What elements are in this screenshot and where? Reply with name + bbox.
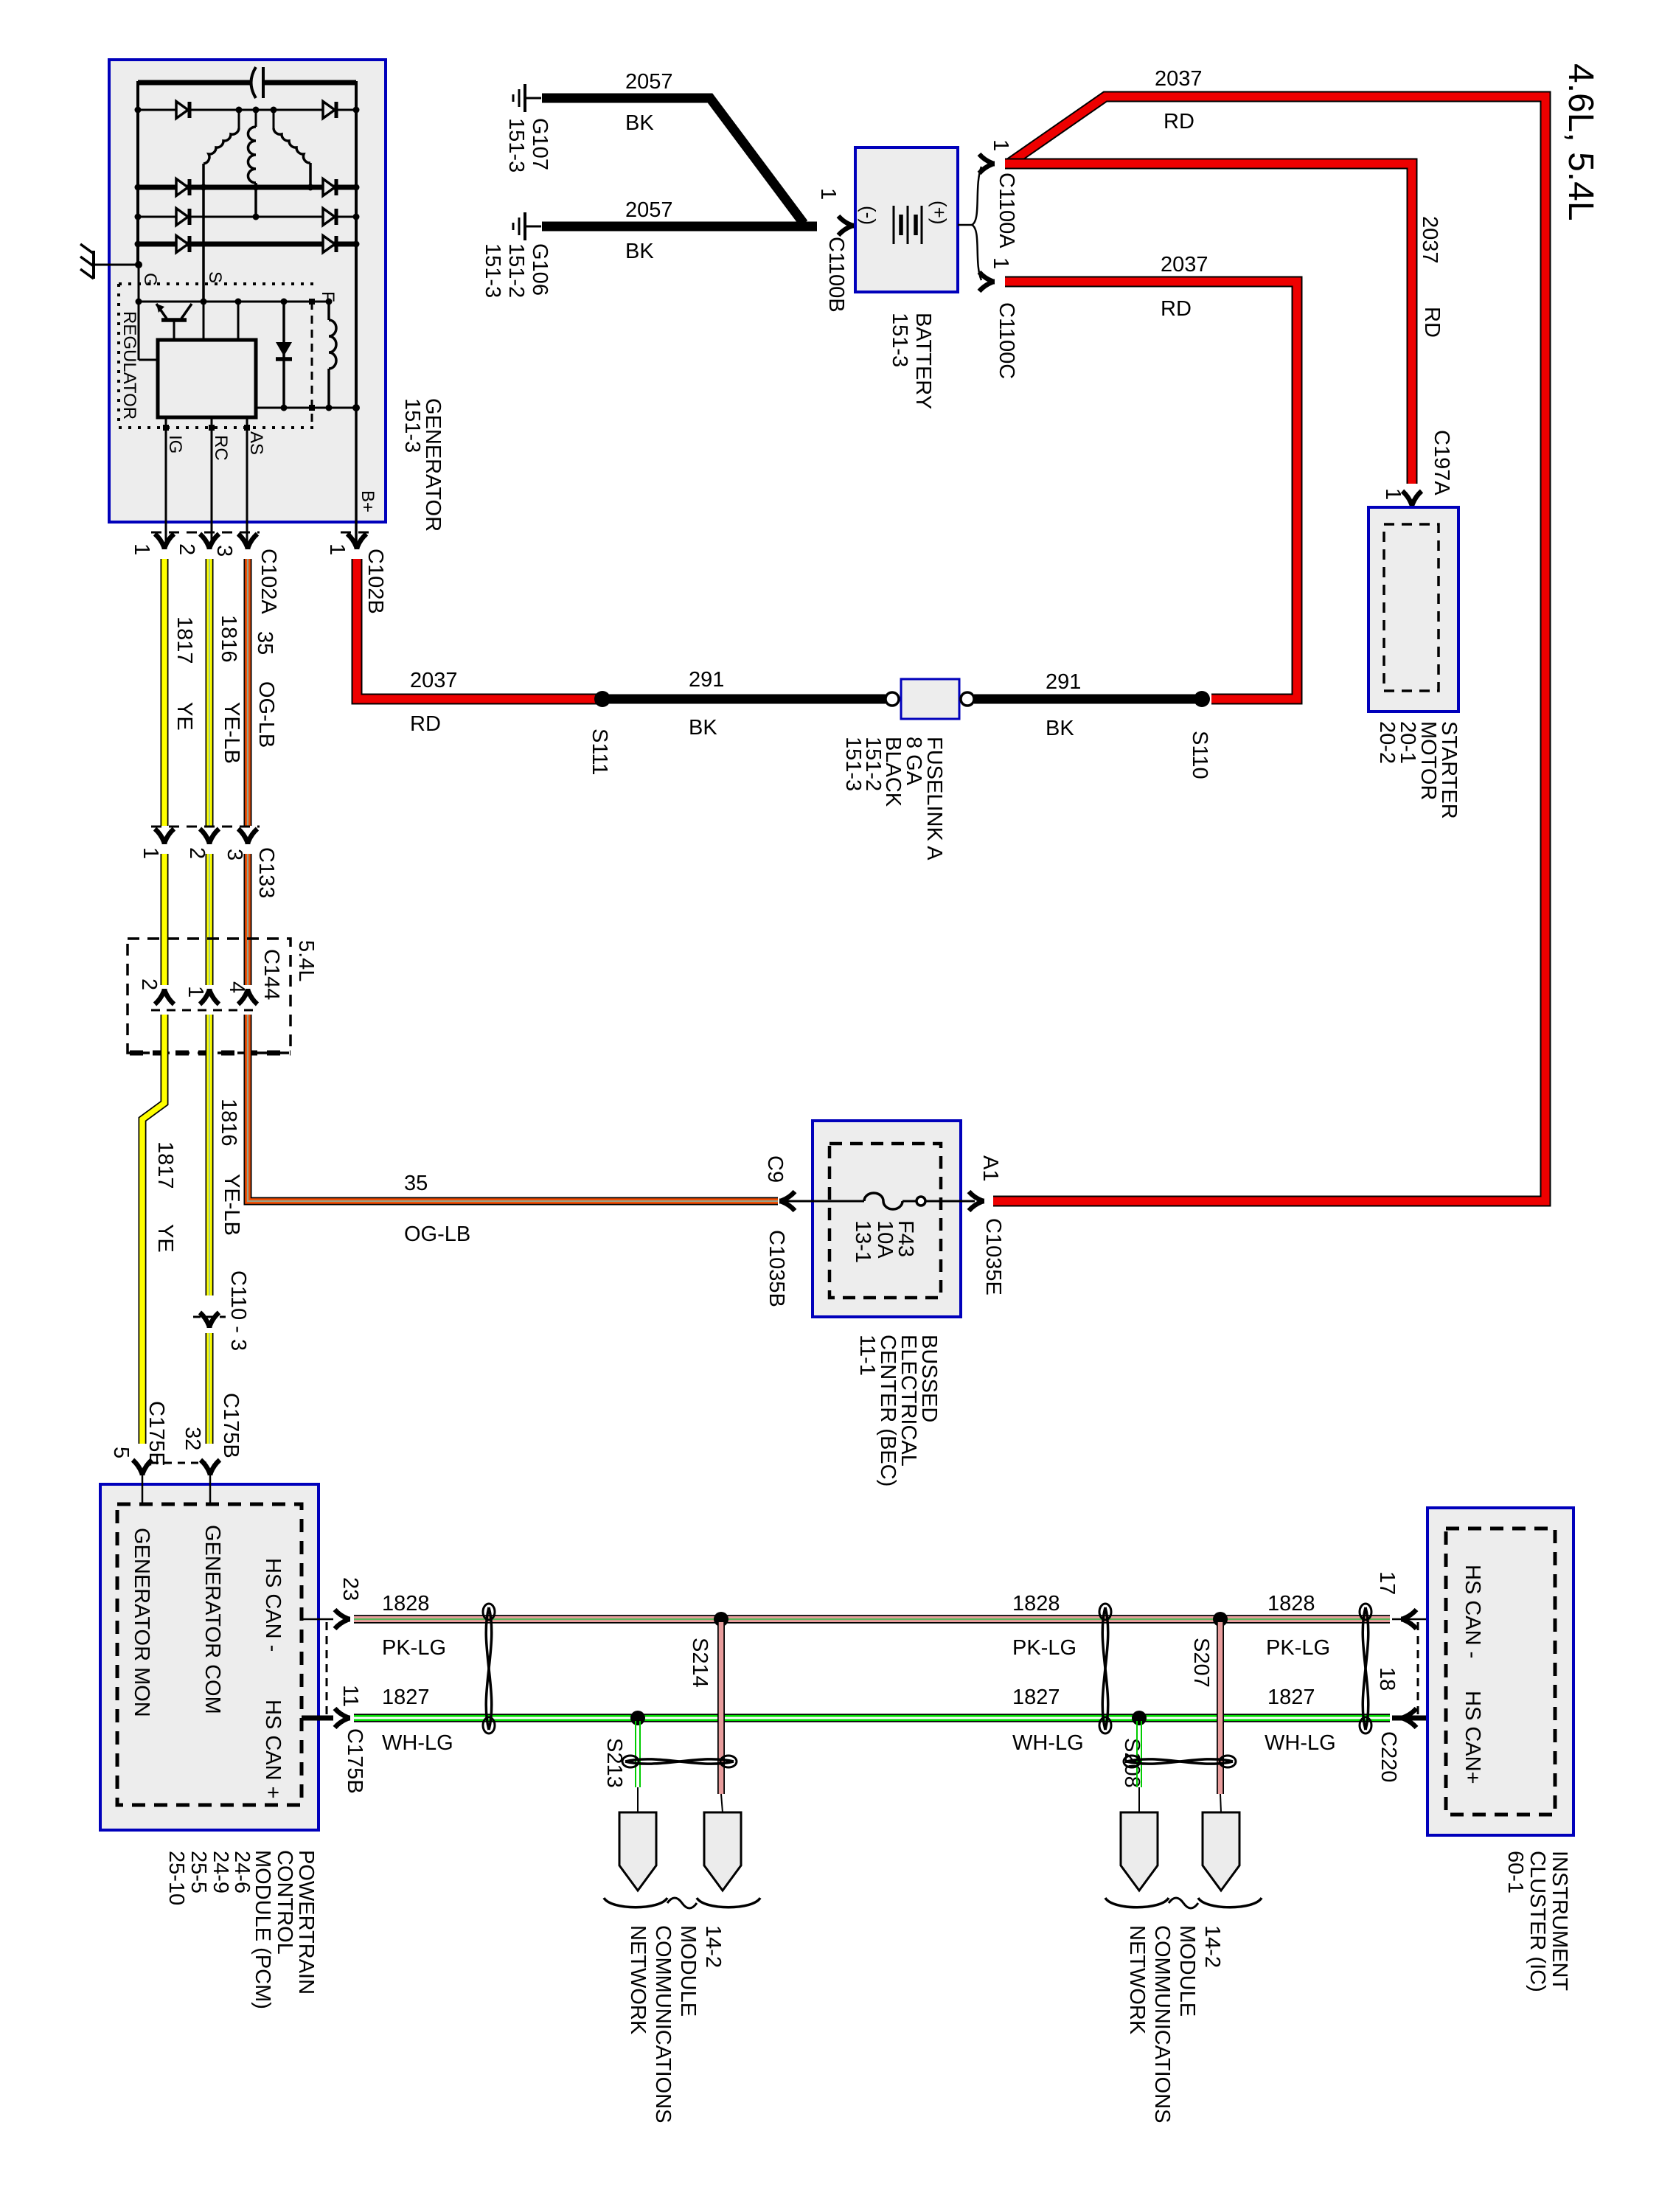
svg-text:NETWORK: NETWORK bbox=[1125, 1925, 1149, 2035]
svg-text:1828: 1828 bbox=[1012, 1592, 1060, 1615]
generator B+ top rail bbox=[138, 80, 250, 86]
row2-row3 link bbox=[254, 183, 257, 217]
diode D1 bbox=[176, 102, 188, 119]
svg-text:HS CAN+: HS CAN+ bbox=[1461, 1691, 1484, 1784]
svg-text:2037: 2037 bbox=[1418, 216, 1441, 264]
svg-text:A1: A1 bbox=[978, 1155, 1002, 1181]
BEC inner dashed box bbox=[829, 1144, 941, 1298]
transistor Q1 bbox=[156, 304, 167, 319]
svg-text:OG-LB: OG-LB bbox=[404, 1222, 470, 1246]
B+ lead bbox=[355, 409, 358, 543]
wire 1817 YE lower bbox=[142, 1015, 164, 1444]
svg-text:MODULE: MODULE bbox=[1175, 1925, 1199, 2017]
svg-text:151-2: 151-2 bbox=[504, 243, 528, 298]
svg-text:151-3: 151-3 bbox=[888, 313, 911, 367]
powertrain control module box bbox=[100, 1484, 319, 1830]
S214 drop wire bbox=[717, 1622, 725, 1794]
wire 35 OG-LB lower bbox=[248, 1015, 778, 1201]
svg-text:POWERTRAIN: POWERTRAIN bbox=[294, 1850, 318, 1994]
S213 terminal bbox=[619, 1812, 656, 1891]
splice S208 bbox=[1132, 1711, 1147, 1725]
connector C102 dashed line bbox=[151, 532, 260, 534]
svg-text:BK: BK bbox=[625, 111, 654, 135]
svg-text:C1100A: C1100A bbox=[995, 173, 1018, 248]
svg-text:25-5: 25-5 bbox=[187, 1851, 210, 1893]
RC pin lead bbox=[211, 417, 213, 543]
battery symbol bbox=[893, 206, 895, 244]
connector C1100B arrow bbox=[838, 216, 854, 235]
fuse terminal dot bbox=[917, 1197, 925, 1206]
svg-text:25-10: 25-10 bbox=[164, 1851, 188, 1905]
svg-text:B+: B+ bbox=[358, 490, 378, 512]
splice S111 bbox=[594, 691, 611, 707]
diode D3 bbox=[176, 179, 188, 196]
G wire bbox=[138, 265, 140, 360]
svg-text:WH-LG: WH-LG bbox=[1265, 1731, 1336, 1755]
5.4L dashed box bbox=[128, 939, 291, 1053]
regulator top wire bbox=[139, 301, 329, 303]
svg-text:RC: RC bbox=[211, 435, 231, 461]
PCM pin23 arrow bbox=[335, 1610, 350, 1629]
svg-text:24-9: 24-9 bbox=[209, 1851, 232, 1893]
wire 291 BK left bbox=[609, 695, 886, 704]
stator tap wires bbox=[238, 110, 240, 128]
svg-text:PK-LG: PK-LG bbox=[382, 1636, 446, 1660]
fuselink terminal circle left bbox=[886, 692, 899, 706]
diode D8 bbox=[323, 236, 335, 253]
twisted pair symbol left bbox=[486, 1607, 492, 1730]
splice S214 bbox=[714, 1612, 728, 1627]
svg-text:151-3: 151-3 bbox=[400, 398, 424, 453]
svg-text:C110 - 3: C110 - 3 bbox=[226, 1270, 250, 1351]
svg-text:(-): (-) bbox=[858, 206, 880, 225]
wire 1816 YE-LB lower2 bbox=[206, 1333, 214, 1444]
pin dots on boundary bbox=[163, 425, 169, 431]
starter motor box bbox=[1368, 507, 1458, 712]
svg-text:24-6: 24-6 bbox=[230, 1851, 254, 1893]
svg-text:BATTERY: BATTERY bbox=[911, 313, 935, 409]
connector C102 pin2 arrow bbox=[200, 534, 219, 549]
svg-text:BK: BK bbox=[625, 240, 654, 263]
svg-text:INSTRUMENT: INSTRUMENT bbox=[1548, 1851, 1571, 1991]
IC pin17 arrow bbox=[1401, 1610, 1416, 1629]
connector C133 pin3 arrow bbox=[238, 829, 257, 844]
connector C133 dashed line bbox=[151, 826, 260, 828]
fuselink A box bbox=[901, 679, 959, 719]
svg-text:2: 2 bbox=[175, 543, 198, 555]
connector C9 arrow bbox=[779, 1192, 795, 1211]
svg-text:C1100B: C1100B bbox=[824, 237, 848, 313]
svg-text:1828: 1828 bbox=[1267, 1592, 1315, 1615]
svg-text:YE-LB: YE-LB bbox=[220, 702, 243, 764]
connector C1100A arrow bbox=[979, 154, 995, 173]
S stub to regulator bbox=[203, 302, 205, 340]
svg-text:WH-LG: WH-LG bbox=[382, 1731, 453, 1755]
IC pin dashed link bbox=[1417, 1622, 1419, 1715]
svg-text:1816: 1816 bbox=[217, 1099, 240, 1147]
svg-text:C1035E: C1035E bbox=[981, 1218, 1005, 1295]
svg-text:1: 1 bbox=[816, 188, 840, 200]
connector C133 pin2 arrow bbox=[200, 829, 219, 844]
svg-text:HS CAN -: HS CAN - bbox=[261, 1558, 285, 1652]
connector C175E arrow bbox=[133, 1460, 152, 1475]
PCM pin23 stub bbox=[302, 1618, 333, 1621]
svg-text:G107: G107 bbox=[528, 118, 552, 170]
svg-text:14-2: 14-2 bbox=[701, 1925, 725, 1968]
rectifier row 1 bbox=[138, 109, 356, 111]
S208 terminal bbox=[1121, 1812, 1158, 1891]
IG pin lead bbox=[165, 417, 167, 543]
svg-text:10A: 10A bbox=[873, 1220, 897, 1259]
connector C197A arrow bbox=[1402, 491, 1422, 507]
wire 2037 RD from C102B bbox=[357, 559, 597, 699]
svg-text:151-3: 151-3 bbox=[504, 118, 528, 173]
voltage regulator IC box bbox=[158, 340, 256, 417]
wire 1816 YE-LB upper bbox=[206, 559, 214, 826]
fuse wire through BEC bbox=[780, 1200, 864, 1203]
S214 terminal bbox=[704, 1812, 741, 1891]
svg-text:291: 291 bbox=[1046, 670, 1081, 694]
svg-text:COMMUNICATIONS: COMMUNICATIONS bbox=[651, 1925, 675, 2124]
starter motor inner dashed box bbox=[1384, 524, 1439, 691]
wire 2057 BK G106 bbox=[542, 222, 817, 232]
svg-text:17: 17 bbox=[1375, 1571, 1399, 1595]
svg-text:1: 1 bbox=[989, 139, 1012, 151]
stator winding right bbox=[274, 128, 310, 163]
wire 1827 WH-LG bbox=[354, 1714, 1390, 1722]
svg-text:BK: BK bbox=[689, 716, 717, 740]
connector C144 pin2 arrow bbox=[155, 989, 174, 1004]
PCM inner dashed box bbox=[117, 1504, 302, 1805]
wire 35 OG-LB upper bbox=[244, 559, 252, 826]
wire 291 BK right bbox=[974, 695, 1203, 704]
battery stub bbox=[958, 224, 972, 226]
svg-text:32: 32 bbox=[181, 1427, 204, 1450]
IC pin18 stub bbox=[1392, 1716, 1446, 1721]
svg-text:YE: YE bbox=[173, 702, 196, 731]
svg-text:RD: RD bbox=[1164, 110, 1194, 133]
regulator bottom wire bbox=[256, 407, 356, 409]
svg-text:C102B: C102B bbox=[364, 549, 387, 614]
svg-text:AS: AS bbox=[246, 431, 266, 455]
diode D7 bbox=[176, 236, 188, 253]
svg-text:4.6L, 5.4L: 4.6L, 5.4L bbox=[1561, 63, 1600, 221]
svg-text:YE: YE bbox=[153, 1224, 177, 1253]
svg-text:2037: 2037 bbox=[410, 669, 458, 692]
C175 dashed line bbox=[151, 1462, 206, 1464]
S214 terminal stub bbox=[721, 1794, 723, 1812]
rectifier row 4 bbox=[138, 242, 356, 247]
svg-text:HS CAN -: HS CAN - bbox=[1461, 1565, 1484, 1658]
svg-text:(+): (+) bbox=[928, 201, 950, 225]
svg-text:35: 35 bbox=[404, 1172, 428, 1195]
junction dots regulator wire bbox=[136, 299, 142, 305]
svg-text:S214: S214 bbox=[688, 1638, 712, 1688]
PCM pin stubs bbox=[142, 1475, 144, 1504]
svg-text:2057: 2057 bbox=[625, 198, 673, 222]
svg-text:C197A: C197A bbox=[1430, 430, 1453, 495]
stator right lead bbox=[309, 163, 312, 187]
svg-text:5.4L: 5.4L bbox=[294, 940, 318, 981]
S213 drop wire bbox=[635, 1721, 636, 1787]
svg-text:1: 1 bbox=[130, 543, 153, 555]
connector A1 arrow bbox=[969, 1192, 984, 1211]
brace right bbox=[1105, 1898, 1169, 1907]
svg-text:S207: S207 bbox=[1189, 1638, 1213, 1688]
regulator stub 2 bbox=[237, 302, 240, 340]
wire 1816 YE-LB mid bbox=[206, 854, 214, 985]
field flyback diode bbox=[282, 302, 285, 408]
connector C102 pin1 arrow bbox=[155, 534, 174, 549]
svg-text:13-1: 13-1 bbox=[851, 1220, 874, 1263]
svg-text:1: 1 bbox=[139, 847, 162, 859]
stator S lead bbox=[202, 164, 205, 303]
svg-text:C144: C144 bbox=[260, 949, 283, 1000]
PCM pin dashed link bbox=[326, 1622, 328, 1715]
wire 2037 RD battery to BEC bbox=[993, 97, 1545, 1201]
svg-text:CONTROL: CONTROL bbox=[273, 1850, 296, 1955]
twisted pair symbol right bbox=[1363, 1607, 1368, 1730]
svg-text:18: 18 bbox=[1375, 1667, 1399, 1691]
generator box bbox=[109, 60, 386, 522]
diode D2 bbox=[323, 102, 335, 119]
field coil F bbox=[327, 302, 330, 320]
svg-text:C9: C9 bbox=[763, 1155, 787, 1183]
svg-text:PK-LG: PK-LG bbox=[1266, 1636, 1330, 1660]
svg-text:1827: 1827 bbox=[382, 1686, 430, 1709]
svg-text:PK-LG: PK-LG bbox=[1012, 1636, 1077, 1660]
connector C110-3 arrow bbox=[200, 1312, 219, 1328]
svg-text:151-3: 151-3 bbox=[841, 737, 865, 791]
PCM pin11 arrow bbox=[335, 1708, 350, 1728]
svg-text:C175E: C175E bbox=[145, 1401, 168, 1467]
svg-text:11: 11 bbox=[338, 1685, 362, 1707]
svg-text:2037: 2037 bbox=[1161, 253, 1208, 276]
generator left rail bbox=[136, 81, 139, 266]
svg-text:4: 4 bbox=[225, 981, 248, 993]
svg-text:BK: BK bbox=[1046, 717, 1074, 740]
fuse F43 element bbox=[864, 1193, 902, 1209]
connector C1100C arrow bbox=[979, 272, 995, 291]
twisted pair symbol drop left bbox=[625, 1759, 734, 1764]
wire 1817 YE upper bbox=[161, 559, 169, 826]
svg-text:35: 35 bbox=[253, 631, 276, 655]
fuselink terminal circle right bbox=[961, 692, 974, 706]
svg-text:S110: S110 bbox=[1188, 731, 1211, 779]
wire 1828 PK-LG bbox=[354, 1615, 1390, 1624]
connector C102 B+ arrow bbox=[347, 534, 366, 549]
C197A stub bbox=[1411, 506, 1413, 525]
generator right rail bbox=[355, 81, 358, 409]
svg-text:1816: 1816 bbox=[217, 615, 240, 663]
svg-text:1: 1 bbox=[325, 543, 349, 555]
S207 terminal stub bbox=[1220, 1794, 1221, 1812]
svg-text:C1035B: C1035B bbox=[765, 1230, 788, 1307]
svg-text:1: 1 bbox=[989, 257, 1012, 269]
svg-text:S111: S111 bbox=[588, 728, 611, 775]
svg-text:MODULE: MODULE bbox=[676, 1925, 700, 2017]
svg-text:NETWORK: NETWORK bbox=[626, 1925, 650, 2035]
svg-text:14-2: 14-2 bbox=[1200, 1925, 1224, 1968]
wire 2057 BK G107 bbox=[542, 98, 804, 223]
svg-text:G: G bbox=[140, 273, 160, 287]
svg-text:C220: C220 bbox=[1377, 1731, 1400, 1782]
svg-text:GENERATOR COM: GENERATOR COM bbox=[201, 1525, 224, 1714]
chassis ground symbol bbox=[92, 251, 95, 279]
instrument cluster box bbox=[1427, 1508, 1573, 1835]
wire 1817 YE mid bbox=[161, 854, 169, 985]
svg-text:1827: 1827 bbox=[1012, 1686, 1060, 1709]
svg-text:GENERATOR MON: GENERATOR MON bbox=[130, 1528, 153, 1717]
svg-text:OG-LB: OG-LB bbox=[254, 681, 278, 748]
wire 35 OG-LB mid bbox=[244, 854, 252, 985]
ground G106 symbol bbox=[524, 212, 526, 240]
splice S213 bbox=[630, 1711, 645, 1725]
svg-text:YE-LB: YE-LB bbox=[220, 1174, 243, 1236]
twisted pair symbol drop right bbox=[1127, 1759, 1233, 1764]
battery split curves bbox=[972, 167, 981, 225]
junction dots rows bbox=[135, 107, 142, 114]
C144 dashed line bbox=[151, 1009, 260, 1012]
svg-text:1817: 1817 bbox=[173, 616, 196, 664]
S207 drop wire bbox=[1217, 1622, 1224, 1794]
svg-text:G106: G106 bbox=[528, 243, 552, 296]
svg-text:23: 23 bbox=[338, 1577, 362, 1601]
svg-text:2057: 2057 bbox=[625, 70, 673, 94]
connector C110-3 dashes bbox=[193, 1316, 226, 1318]
svg-text:RD: RD bbox=[1161, 297, 1192, 321]
S208 terminal stub bbox=[1138, 1787, 1140, 1812]
PCM pin11 stub bbox=[302, 1716, 333, 1721]
wire 2037 RD battery to starter bbox=[1005, 164, 1412, 484]
svg-text:1: 1 bbox=[1381, 488, 1405, 500]
F terminal dashed lead bbox=[311, 302, 313, 428]
rectifier row 3 bbox=[138, 216, 356, 218]
svg-text:20-2: 20-2 bbox=[1375, 721, 1399, 764]
IC pin18 arrow bbox=[1401, 1708, 1416, 1728]
diode D6 bbox=[323, 209, 335, 226]
capacitor C (suppression) bbox=[251, 67, 257, 98]
svg-text:2037: 2037 bbox=[1155, 67, 1203, 91]
svg-text:RD: RD bbox=[1420, 307, 1444, 338]
S207 terminal bbox=[1203, 1812, 1239, 1891]
svg-text:WH-LG: WH-LG bbox=[1012, 1731, 1084, 1755]
svg-text:1828: 1828 bbox=[382, 1592, 430, 1615]
svg-text:1817: 1817 bbox=[153, 1141, 177, 1189]
bussed electrical center box bbox=[813, 1121, 961, 1317]
svg-text:C175B: C175B bbox=[219, 1393, 243, 1458]
svg-text:1827: 1827 bbox=[1267, 1686, 1315, 1709]
svg-text:3: 3 bbox=[223, 849, 246, 860]
svg-text:60-1: 60-1 bbox=[1503, 1851, 1527, 1893]
rectifier row 2 bbox=[138, 185, 356, 190]
ground lead bbox=[94, 264, 139, 266]
stator winding left bbox=[204, 128, 239, 164]
diode D4 bbox=[323, 179, 335, 196]
svg-text:151-3: 151-3 bbox=[481, 243, 504, 298]
connector C144 pin4 arrow bbox=[238, 989, 257, 1004]
svg-text:C133: C133 bbox=[254, 847, 278, 898]
battery box bbox=[855, 147, 958, 292]
svg-text:291: 291 bbox=[689, 668, 724, 692]
svg-text:11-1: 11-1 bbox=[855, 1335, 879, 1376]
S208 drop wire bbox=[1136, 1721, 1138, 1787]
svg-text:CLUSTER (IC): CLUSTER (IC) bbox=[1526, 1851, 1549, 1992]
wire 1816 YE-LB lower bbox=[206, 1015, 214, 1295]
regulator dotted boundary bbox=[119, 282, 315, 285]
connector C133 pin1 arrow bbox=[155, 829, 174, 844]
svg-text:REGULATOR: REGULATOR bbox=[119, 311, 139, 420]
svg-text:S: S bbox=[205, 271, 225, 283]
splice S110 bbox=[1194, 691, 1210, 707]
stator winding center bbox=[248, 127, 256, 183]
svg-text:1: 1 bbox=[184, 986, 207, 998]
svg-text:RD: RD bbox=[410, 712, 441, 736]
twisted pair symbol mid bbox=[1102, 1607, 1108, 1730]
diode D5 bbox=[176, 209, 188, 226]
svg-text:C175B: C175B bbox=[343, 1728, 366, 1794]
svg-text:C102A: C102A bbox=[257, 549, 280, 614]
connector C175B arrow bbox=[201, 1460, 220, 1475]
IC pin17 stub bbox=[1392, 1618, 1446, 1621]
AS pin lead bbox=[246, 417, 248, 543]
svg-text:HS CAN +: HS CAN + bbox=[261, 1700, 285, 1799]
connector C144 pin1 arrow bbox=[200, 989, 219, 1004]
splice S207 bbox=[1213, 1612, 1228, 1627]
svg-text:2: 2 bbox=[137, 978, 161, 990]
svg-text:IG: IG bbox=[165, 435, 185, 453]
svg-text:3: 3 bbox=[212, 545, 236, 557]
svg-text:2: 2 bbox=[185, 847, 209, 859]
svg-text:COMMUNICATIONS: COMMUNICATIONS bbox=[1150, 1925, 1174, 2124]
svg-text:5: 5 bbox=[109, 1447, 133, 1458]
IC inner dashed box bbox=[1446, 1528, 1555, 1815]
ground G107 symbol bbox=[524, 84, 526, 112]
connector C102 pin3 arrow bbox=[238, 534, 257, 549]
brace left bbox=[604, 1898, 667, 1907]
S213 terminal stub bbox=[637, 1787, 639, 1812]
wire 2037 RD battery to S110 bbox=[1005, 282, 1297, 699]
svg-text:C1100C: C1100C bbox=[995, 302, 1018, 379]
